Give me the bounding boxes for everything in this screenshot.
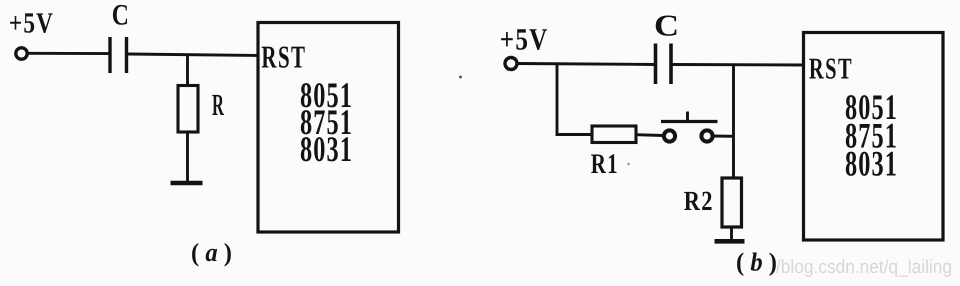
resistor R value label (a) — [212, 88, 224, 122]
svg-text:R: R — [212, 88, 224, 122]
IC U1 8051 box (a) — [258, 23, 399, 233]
resistor R1 body (b) — [592, 126, 636, 143]
svg-text:C: C — [654, 9, 679, 43]
wire R1 to switch S (b) — [636, 133, 663, 137]
svg-text:R1: R1 — [591, 149, 619, 180]
resistor R1 value label (b) — [591, 149, 619, 180]
resistor R (a) body — [178, 86, 198, 133]
pin label RST (b) — [809, 52, 853, 86]
svg-text:C: C — [112, 0, 129, 32]
ground (b) — [715, 239, 745, 244]
ground (a) — [171, 181, 203, 186]
svg-text:R2: R2 — [684, 185, 714, 216]
wire junction branch down to resistor R (a) — [186, 55, 189, 87]
svg-text:RST: RST — [261, 40, 306, 75]
svg-text:8031: 8031 — [300, 129, 353, 169]
wire R2 to ground (b) — [730, 227, 733, 241]
wire switch to node (b) — [713, 135, 735, 138]
svg-text:( b ): ( b ) — [736, 248, 777, 277]
capacitor C (b) plates — [656, 44, 672, 85]
IC U2 8051 box (b) — [804, 33, 944, 241]
svg-text:RST: RST — [809, 52, 853, 86]
wire terminal to capacitor C (b) — [518, 64, 656, 65]
switch S right contact circle — [701, 130, 712, 141]
terminal circle (circuit a input) — [16, 48, 27, 59]
pin label RST (a) — [261, 40, 306, 75]
IC text 8051 (a) — [300, 75, 353, 115]
capacitor C (a) plates — [110, 37, 127, 73]
wire terminal to capacitor C (a) — [28, 52, 111, 55]
svg-text:8031: 8031 — [845, 144, 898, 184]
IC text 8031 (a) — [300, 129, 353, 169]
node +5V label (circuit a) — [9, 8, 54, 40]
terminal circle (circuit b input) — [505, 58, 517, 70]
switch S actuator stem — [686, 112, 689, 122]
svg-text:+5V: +5V — [500, 22, 549, 57]
switch S actuator bar — [661, 120, 718, 123]
capacitor C value label (a) — [112, 0, 129, 32]
IC text 8751 (b) — [845, 115, 898, 155]
svg-text:+5V: +5V — [9, 8, 54, 40]
speck between circuits — [459, 76, 462, 79]
wire capacitor to RST pin (a) — [128, 54, 258, 56]
node +5V label (circuit b) — [500, 22, 549, 57]
resistor R2 body (b) — [722, 178, 742, 227]
resistor R2 value label (b) — [684, 185, 714, 216]
svg-text:( a ): ( a ) — [191, 238, 232, 267]
IC text 8751 (a) — [300, 102, 353, 142]
wire capacitor to RST pin (b) — [673, 63, 806, 66]
svg-text:/blog.csdn.net/q_lailing: /blog.csdn.net/q_lailing — [776, 257, 952, 278]
capacitor C value label (b) — [654, 9, 679, 43]
IC text 8051 (b) — [845, 87, 898, 127]
speck near R1 label — [627, 163, 629, 165]
switch S left contact circle — [664, 130, 675, 141]
wire branch down to R1 (b) — [557, 64, 592, 135]
IC text 8031 (b) — [845, 144, 898, 184]
wire node down to resistor R2 (b) — [732, 65, 735, 179]
wire resistor R to ground (a) — [186, 132, 189, 183]
